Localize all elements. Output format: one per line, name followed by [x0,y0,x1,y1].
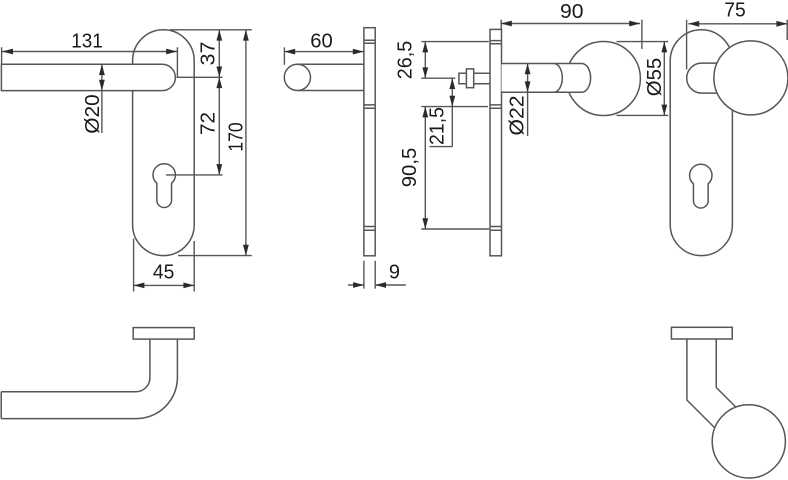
dimension 90: arrows [501,21,512,27]
knob side view: spindle body [459,73,490,83]
svg-text:45: 45 [153,262,175,284]
dimension 60: line and extension [284,47,363,64]
dimension 131: line and extensions [2,47,178,77]
dimension Ø20: arrows [99,64,105,75]
svg-text:26,5: 26,5 [395,41,417,80]
svg-text:75: 75 [724,0,746,22]
knob top view: flange [671,327,732,339]
svg-text:9: 9 [389,262,400,284]
dimension 9: arrows [353,282,364,288]
knob top view: ball [712,405,785,478]
svg-text:72: 72 [198,112,220,135]
dimension 37: line and extensions [170,30,252,78]
dimension 75: arrows [688,21,699,27]
lever side view: plate joint lines [364,40,375,230]
dimension 37: arrows [216,30,222,41]
knob front view: backplate [670,30,732,256]
dimension 21,5: line, leader and extension [421,78,488,146]
knob top view: neck [687,339,736,428]
dimension 90,5: line and extension [421,107,489,229]
knob front view: ball [714,41,788,115]
svg-text:21,5: 21,5 [427,107,449,145]
dimension 26,5: line and extensions [421,42,489,79]
dimension Ø20: line [101,64,103,133]
knob side view: neck shoulder arc [554,64,562,93]
dimension 45: arrows [134,283,145,289]
lever side view: plate [364,28,375,256]
knob side view: spindle flange [466,69,473,88]
svg-text:37: 37 [198,42,220,66]
lever top view: flange [133,328,194,340]
svg-text:90: 90 [560,1,584,23]
knob side view: plate [490,29,502,255]
svg-text:170: 170 [225,122,247,152]
dimension 75: line and extensions [687,20,788,70]
dimension 170: line and extension [178,30,252,256]
lever side view: bar lines [297,64,364,90]
svg-text:Ø20: Ø20 [82,94,104,134]
svg-text:Ø55: Ø55 [644,58,666,97]
svg-text:60: 60 [310,31,333,53]
lever side view: grip end circle [284,64,310,90]
lever front view: euro profile keyhole [153,164,175,208]
dimension Ø55: arrows [661,42,667,53]
dimension 72: line and extension [166,77,223,175]
dimension 45: line and extensions [134,239,195,292]
svg-text:Ø22: Ø22 [506,96,528,136]
dimension 21,5: arrows [449,78,455,89]
dimension 90,5: arrows [422,107,428,118]
svg-text:131: 131 [71,31,103,53]
knob side view: neck [502,64,591,93]
dimension 170: arrows [243,30,249,41]
dimension Ø22: line [527,64,529,137]
dimension 72: arrows [216,77,222,88]
knob front view: euro profile keyhole [690,164,712,208]
lever top view: neck and bend [1,339,177,419]
dimension Ø55: line and extensions [617,42,669,116]
dimension 26,5: arrows [422,42,428,53]
dimension 60: arrows [284,49,295,55]
lever front view: lever bar [1,64,175,90]
dimension 9: lines and extensions [348,261,406,289]
dimension Ø22: arrows [525,64,531,75]
knob side view: ball [566,42,640,116]
dimension 131: arrows [2,49,13,55]
dimension 90: line and extensions [501,20,642,49]
lever front view: backplate [133,30,195,256]
svg-text:90,5: 90,5 [399,148,421,188]
knob front view: neck [687,63,718,93]
knob side view: plate joint lines [490,41,502,231]
